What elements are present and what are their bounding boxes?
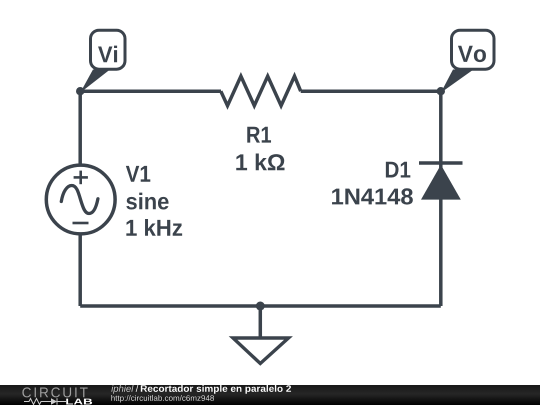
node Vo flag tail [441, 70, 474, 93]
node Vi label text [98, 46, 117, 63]
node Vi flag tail [80, 70, 110, 93]
label V1 type sine [126, 193, 168, 210]
label R1 name [247, 127, 271, 143]
label V1 frequency 1 kHz [126, 219, 182, 236]
footer title line [111, 384, 291, 393]
label V1 name [126, 166, 150, 182]
node Vi flag box [91, 30, 126, 69]
resistor R1 [221, 76, 301, 106]
node Vi dot [76, 87, 84, 95]
wire top rail left (Vi node to R1) [80, 89, 221, 93]
label D1 name [386, 162, 410, 178]
node Vo flag box [452, 30, 495, 69]
label R1 value 1 kOhm [236, 154, 284, 171]
footer bar [0, 385, 540, 405]
node Vo dot [437, 87, 445, 95]
wire right vertical (Vo node through D1 to bottom rail) [439, 91, 443, 306]
CircuitLab logo resistor-diode motif [24, 398, 66, 405]
node Vo label text [458, 46, 486, 62]
footer url line [111, 395, 214, 403]
diode D1 [419, 163, 463, 200]
wire bottom rail [80, 304, 441, 308]
wire left vertical (Vi node to bottom rail) [78, 91, 82, 306]
ground [233, 306, 289, 364]
CircuitLab logo wordmark CIRCUIT [22, 387, 87, 397]
junction node dot (ground tap) [256, 302, 265, 311]
label D1 part 1N4148 [332, 188, 413, 204]
CircuitLab logo wordmark LAB [66, 398, 92, 404]
wire top rail right (R1 to Vo node) [301, 89, 441, 93]
voltage source V1 [46, 165, 115, 234]
